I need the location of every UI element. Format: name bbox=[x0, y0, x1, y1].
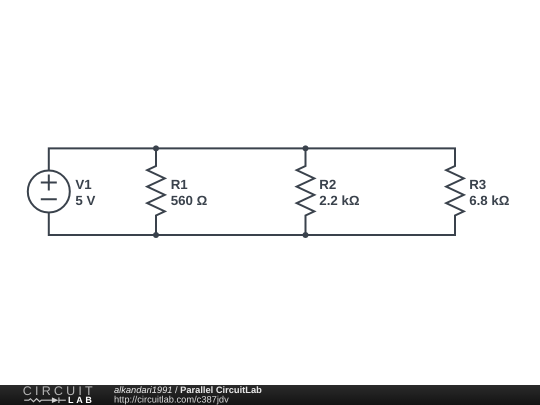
svg-text:5 V: 5 V bbox=[75, 193, 95, 208]
svg-text:LAB: LAB bbox=[68, 395, 95, 405]
svg-text:V1: V1 bbox=[75, 177, 92, 192]
svg-text:6.8 kΩ: 6.8 kΩ bbox=[469, 193, 510, 208]
svg-text:R3: R3 bbox=[469, 177, 486, 192]
svg-text:http://circuitlab.com/c387jdv: http://circuitlab.com/c387jdv bbox=[114, 395, 229, 405]
svg-text:R2: R2 bbox=[319, 177, 336, 192]
svg-text:560 Ω: 560 Ω bbox=[171, 193, 208, 208]
svg-text:R1: R1 bbox=[171, 177, 189, 192]
svg-text:2.2 kΩ: 2.2 kΩ bbox=[319, 193, 360, 208]
